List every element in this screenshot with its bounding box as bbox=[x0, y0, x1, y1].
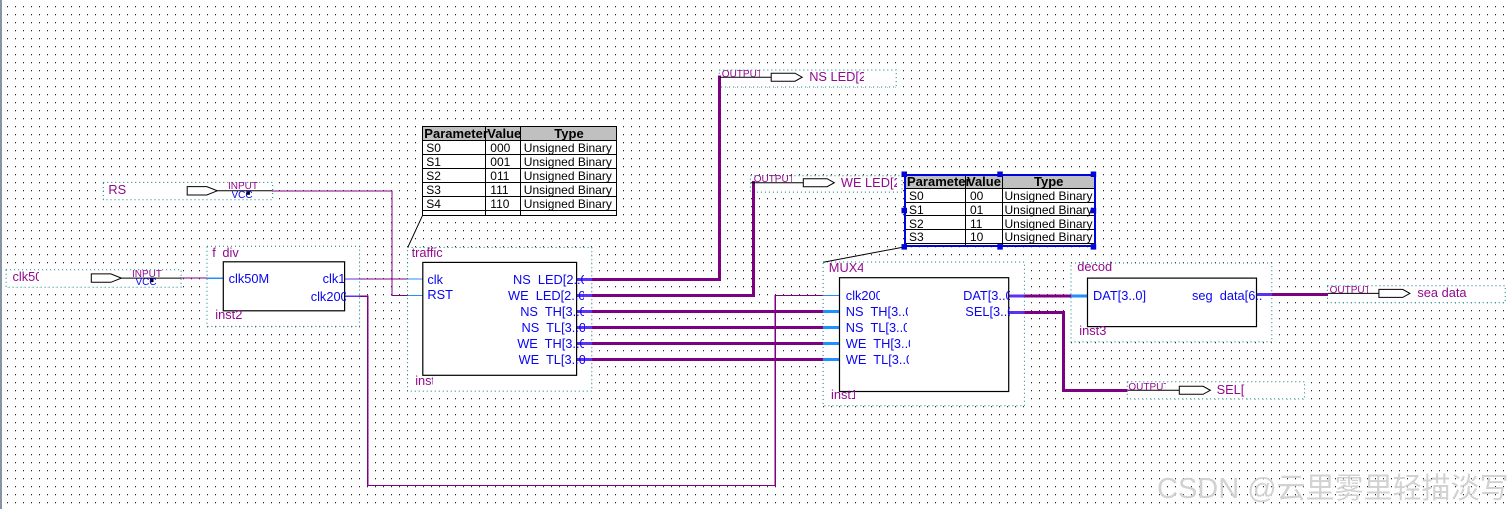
block decoder body bbox=[1088, 278, 1257, 327]
MUX4 block name bbox=[829, 261, 863, 275]
bus MUX4 SEL to SEL output pin bbox=[1009, 311, 1128, 392]
traffic port NS_LED[2..0] bbox=[513, 273, 584, 287]
CSDN watermark bbox=[1157, 465, 1509, 507]
bus traffic NS_TH to MUX4 bbox=[577, 310, 840, 313]
decoder port DAT[3..0] bbox=[1093, 289, 1146, 303]
bus traffic WE_LED to WE LED output pin bbox=[577, 181, 755, 297]
output pin WE LED symbol bbox=[751, 179, 834, 187]
traffic port NS_TL[3..0] bbox=[522, 321, 585, 335]
output pin SEL selection box bbox=[1127, 382, 1304, 399]
div block name f_div bbox=[212, 246, 216, 260]
parameter table 1 (traffic) bbox=[422, 126, 616, 216]
INPUT label RS bbox=[228, 182, 258, 192]
div port clk50M bbox=[229, 272, 270, 286]
output pin NS LED symbol bbox=[720, 73, 802, 81]
wire div clk200 to MUX4 clk200 (long path via bottom) bbox=[345, 295, 840, 486]
MUX4 port WE_TH[3..0] bbox=[846, 337, 910, 351]
OUTPUT label NS LED bbox=[722, 70, 760, 80]
pin name RS bbox=[108, 183, 126, 197]
output pin name SEL[3..0] (clipped) bbox=[1217, 383, 1245, 397]
block div selection box bbox=[207, 246, 360, 326]
left canvas border bbox=[0, 0, 2, 509]
INPUT label clk50 bbox=[132, 270, 162, 280]
VCC label RS bbox=[232, 191, 253, 201]
MUX4 port WE_TL[3..0] bbox=[846, 353, 909, 367]
MUX4 port NS_TL[3..0] bbox=[846, 321, 907, 335]
decoder port seg_data[6..0] (clipped) bbox=[1192, 289, 1262, 303]
bus traffic WE_TL to MUX4 bbox=[577, 358, 840, 361]
MUX4 port clk200 bbox=[846, 289, 880, 303]
callout line table2 to MUX4 box bbox=[823, 247, 904, 262]
input pin RS symbol bbox=[187, 187, 272, 195]
traffic instance name inst (clipped) bbox=[415, 374, 433, 388]
traffic port WE_TL[3..0] bbox=[519, 353, 585, 367]
output pin name WE LED[2..0] (clipped) bbox=[841, 176, 897, 190]
pin name clk50M (clipped) bbox=[13, 270, 40, 284]
traffic port RST bbox=[427, 288, 453, 302]
OUTPUT label sea data bbox=[1330, 286, 1368, 296]
input pin clk50 selection box bbox=[6, 270, 181, 288]
input pin clk50 symbol bbox=[91, 274, 181, 282]
block div body bbox=[223, 262, 344, 311]
bus MUX4 DAT to decoder DAT bbox=[1009, 295, 1088, 298]
traffic port WE_LED[2..0] bbox=[508, 289, 584, 303]
OUTPUT label WE LED bbox=[754, 175, 792, 185]
block traffic body bbox=[423, 262, 577, 375]
output pin sea data selection box bbox=[1328, 286, 1506, 303]
MUX4 port DAT[3..0] bbox=[963, 289, 1010, 303]
MUX4 instance name inst1 (clipped) bbox=[831, 388, 855, 402]
traffic block name bbox=[412, 246, 443, 260]
input pin RS selection box bbox=[103, 182, 272, 199]
traffic port clk bbox=[427, 273, 443, 287]
traffic port NS_TH[3..0] bbox=[520, 305, 584, 319]
wire div clk1 to traffic clk bbox=[345, 278, 423, 279]
block MUX4 selection box bbox=[823, 262, 1024, 406]
output pin WE LED selection box bbox=[750, 176, 902, 192]
output pin NS LED selection box bbox=[719, 70, 896, 87]
block decoder selection box bbox=[1071, 263, 1272, 342]
div port clk1 bbox=[323, 272, 346, 286]
output pin SEL symbol bbox=[1128, 386, 1211, 394]
bus decoder seg_data to sea data output pin bbox=[1257, 293, 1328, 296]
decoder block name (clipped) bbox=[1077, 260, 1112, 274]
block traffic selection box bbox=[408, 247, 592, 391]
decoder instance name inst3 bbox=[1079, 324, 1106, 338]
VCC label clk50 bbox=[136, 278, 157, 288]
bus traffic NS_TL to MUX4 bbox=[577, 326, 840, 329]
traffic port WE_TH[3..0] bbox=[517, 337, 584, 351]
block MUX4 body bbox=[840, 278, 1009, 392]
div instance name inst2 bbox=[215, 308, 242, 322]
wire RS pin to traffic RST bbox=[272, 190, 408, 296]
traffic RST input stub bbox=[408, 295, 423, 296]
bus traffic WE_TH to MUX4 bbox=[577, 342, 840, 345]
OUTPUT label SEL bbox=[1128, 383, 1166, 393]
output pin name sea data bbox=[1417, 286, 1466, 300]
output pin sea data symbol bbox=[1328, 289, 1410, 297]
parameter table 2 (MUX4, selected) bbox=[904, 174, 1096, 247]
MUX4 port NS_TH[3..0] bbox=[846, 305, 908, 319]
callout line table1 to traffic box bbox=[408, 216, 422, 247]
MUX4 port SEL[3..0] bbox=[965, 305, 1010, 319]
wire clk50 pin to div clk50M bbox=[180, 278, 223, 279]
output pin name NS LED[2..0] (clipped) bbox=[809, 70, 864, 84]
bus traffic NS_LED to NS LED output pin bbox=[577, 76, 721, 281]
div port clk200 (clipped) bbox=[311, 290, 346, 304]
